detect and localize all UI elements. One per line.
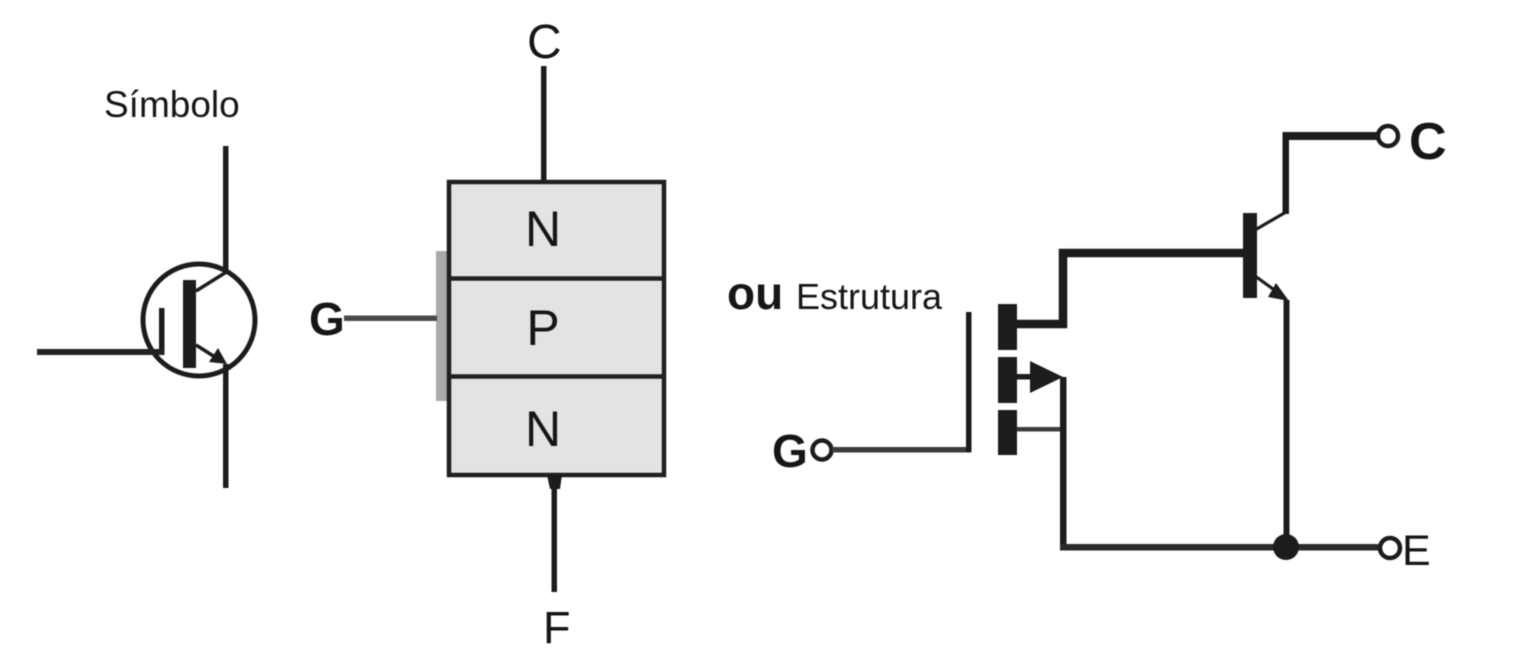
transistor Q1 collector diagonal <box>196 271 228 291</box>
gate electrode gray bar <box>436 251 451 401</box>
wire F lead <box>552 477 558 592</box>
transistor Q1 IGBT symbol circle <box>143 264 255 376</box>
svg-text:C: C <box>1409 113 1447 171</box>
svg-text:N: N <box>525 401 561 457</box>
transistor Q2 MOSFET gate line <box>966 312 972 452</box>
wire emitter rail (bottom) <box>1060 544 1378 551</box>
wire G terminal to MOSFET gate <box>832 447 971 453</box>
transistor Q2 body arrowhead <box>1030 361 1063 393</box>
transistor Q3 collector diagonal <box>1255 212 1286 230</box>
transistor Q2 body arrow stub <box>1017 374 1035 380</box>
svg-text:P: P <box>526 300 559 356</box>
transistor Q2 source contact bar <box>998 410 1017 455</box>
svg-text:Símbolo: Símbolo <box>104 84 240 125</box>
divider N/P <box>447 276 666 281</box>
terminal E open circle <box>1380 538 1400 558</box>
svg-text:ou: ou <box>727 267 783 319</box>
wire C to structure <box>541 66 547 182</box>
junction dot at emitter node <box>1273 534 1299 560</box>
transistor Q2 body contact bar <box>998 357 1017 403</box>
wire collector lead (top) of IGBT symbol <box>223 146 229 272</box>
wire G to gate electrode <box>344 316 437 322</box>
svg-text:C: C <box>527 16 562 69</box>
wire emitter vertical to junction <box>1284 300 1290 547</box>
transistor Q3 emitter diagonal <box>1255 276 1273 289</box>
transistor Q1 gate bar <box>159 308 165 355</box>
transistor Q1 emitter diagonal <box>196 345 215 357</box>
terminal G open circle <box>813 441 832 460</box>
transistor Q2 drain contact bar <box>998 304 1017 350</box>
wire drain to base of Q3 <box>1017 253 1243 324</box>
transistor Q1 emitter arrowhead <box>209 348 227 364</box>
svg-text:F: F <box>543 602 571 653</box>
structure body box <box>449 182 664 475</box>
wire emitter lead (bottom) of IGBT symbol <box>223 364 229 488</box>
transistor Q1 body bar <box>183 280 196 368</box>
terminal C open circle <box>1378 126 1398 146</box>
svg-text:G: G <box>309 293 345 345</box>
svg-text:Estrutura: Estrutura <box>796 276 943 317</box>
svg-text:G: G <box>772 425 808 477</box>
wire collector to C terminal <box>1283 132 1378 140</box>
wire gate lead (left) <box>37 349 164 355</box>
svg-text:E: E <box>1402 527 1431 575</box>
wire source/body vertical down <box>1060 377 1067 547</box>
svg-text:N: N <box>525 201 561 257</box>
transistor Q3 base bar <box>1243 213 1257 298</box>
junction blob at F terminal <box>547 475 562 489</box>
wire source to emitter rail <box>1017 427 1063 432</box>
transistor Q3 emitter arrowhead <box>1268 283 1289 301</box>
wire collector vertical <box>1283 132 1290 214</box>
divider P/N <box>447 374 666 379</box>
